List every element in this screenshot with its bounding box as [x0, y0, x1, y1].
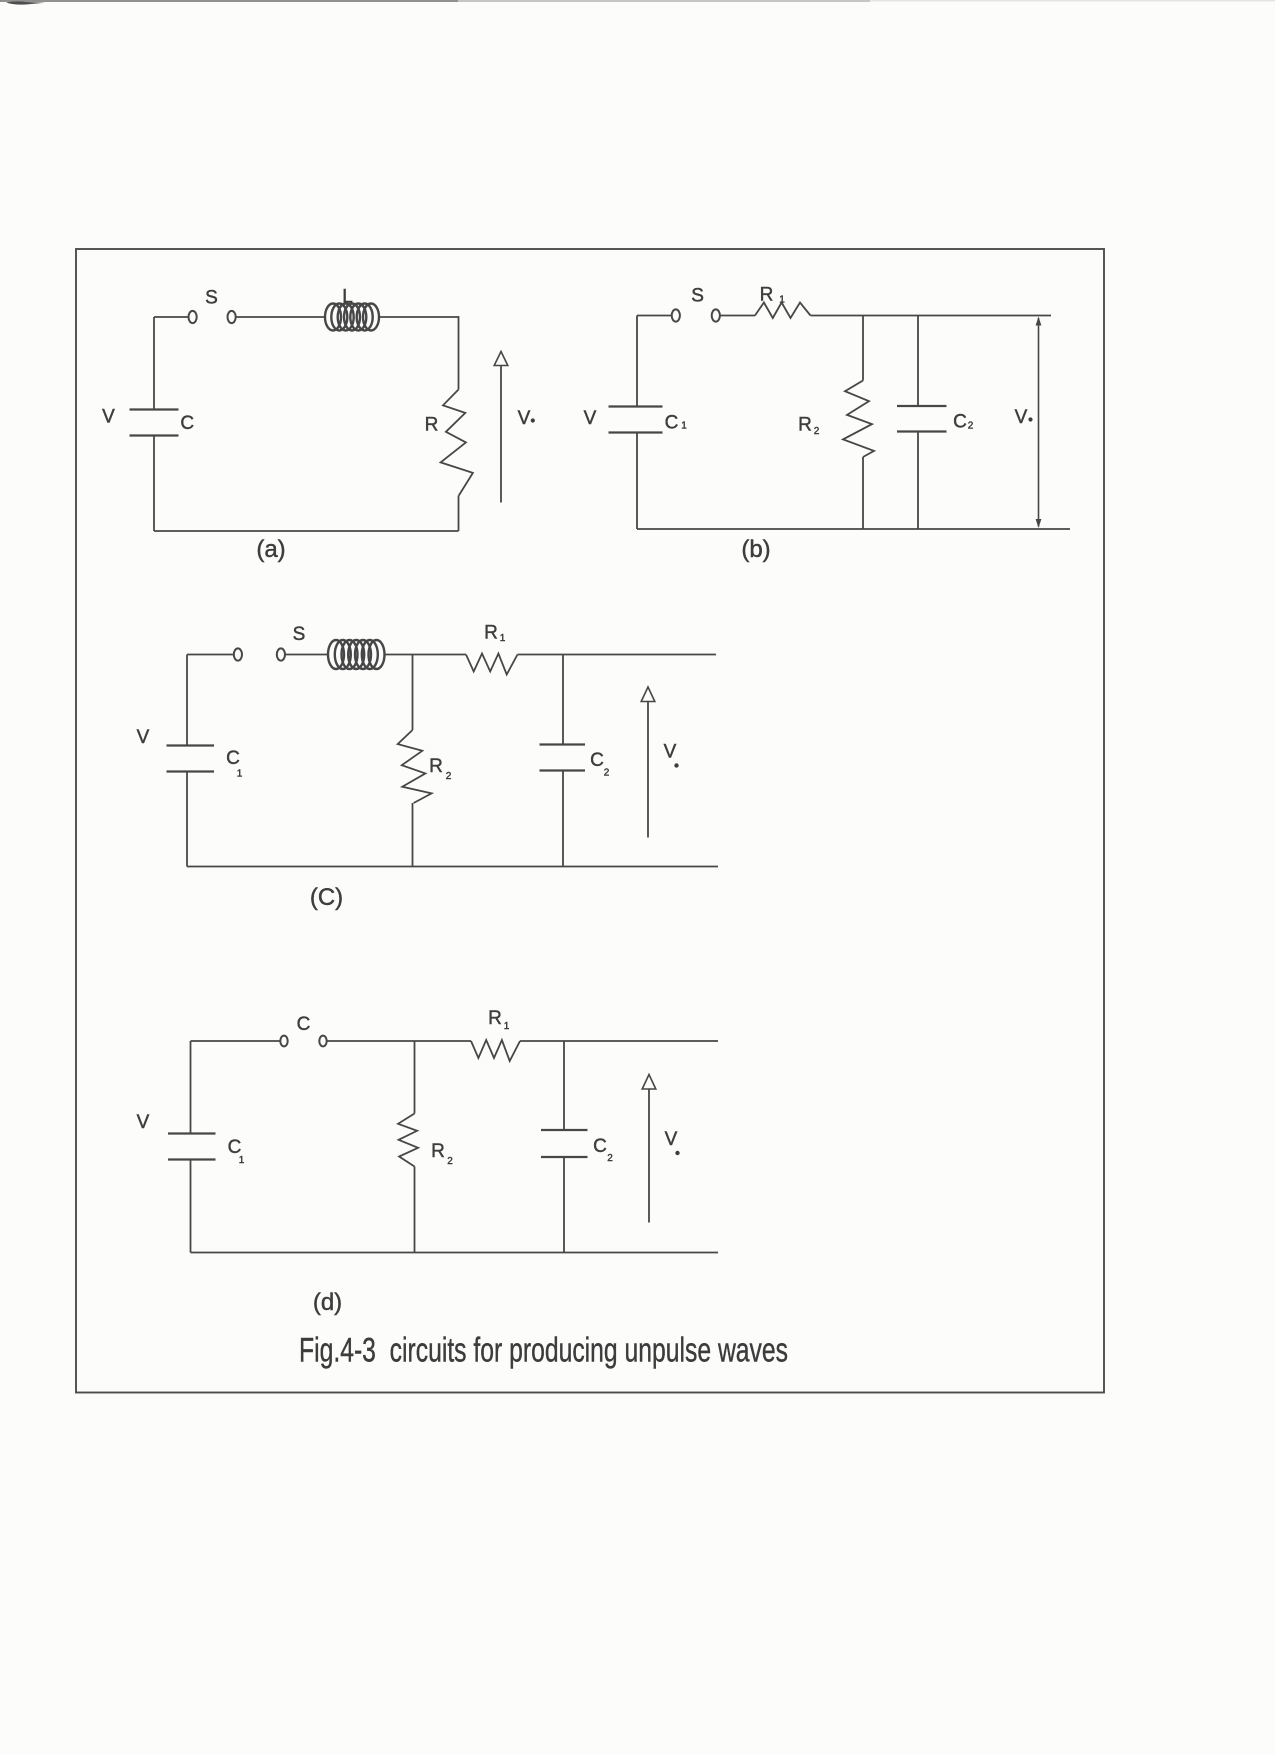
- measurement arrow Vo (b) double-headed: [1038, 318, 1040, 527]
- svg-text:2: 2: [968, 421, 974, 432]
- wire b top right: [811, 315, 1052, 317]
- wire b R2 branch lower: [862, 457, 864, 529]
- svg-text:2: 2: [604, 768, 610, 779]
- wire b top-left stub: [637, 315, 672, 317]
- wire d C2 branch upper: [563, 1041, 565, 1130]
- svg-text:(a): (a): [256, 536, 285, 563]
- wire b C2 branch upper: [917, 316, 919, 407]
- svg-text:V: V: [664, 742, 677, 763]
- svg-text:C: C: [297, 1014, 311, 1035]
- resistor R2 (b): [843, 381, 874, 458]
- resistor R: [441, 390, 473, 496]
- svg-text:1: 1: [239, 1155, 245, 1166]
- svg-text:1: 1: [500, 633, 506, 644]
- svg-text:R: R: [798, 415, 812, 436]
- wire C R2 branch lower: [412, 803, 414, 867]
- wire a left upper: [153, 317, 155, 410]
- svg-text:R: R: [760, 284, 774, 305]
- svg-text:1: 1: [779, 295, 785, 306]
- switch S contact right (C): [277, 648, 285, 660]
- svg-text:Fig.4-3 circuits for producin: Fig.4-3 circuits for producing unpulse w…: [299, 1332, 788, 1370]
- svg-text:R: R: [431, 1141, 445, 1162]
- wire d bottom: [191, 1252, 719, 1254]
- output arrow Vo (d): [648, 1089, 650, 1223]
- svg-text:V: V: [665, 1129, 678, 1150]
- wire C top middle: [385, 654, 467, 656]
- capacitor C1 (b): [609, 405, 663, 407]
- svg-text:(d): (d): [313, 1289, 342, 1316]
- wire d top-left stub: [191, 1040, 280, 1042]
- capacitor C2 (d): [541, 1129, 588, 1131]
- wire d between switch and R1: [327, 1040, 471, 1042]
- switch S contact right (b): [712, 309, 720, 321]
- switch contact left (d): [280, 1036, 287, 1047]
- wire C between switch and inductor: [285, 654, 328, 656]
- wire b bottom: [637, 528, 1070, 530]
- svg-text:C: C: [590, 750, 604, 771]
- svg-text:V: V: [137, 727, 150, 748]
- svg-text:V: V: [137, 1112, 150, 1133]
- output arrow Vo (a): [500, 366, 502, 503]
- switch S contact left (a): [189, 311, 197, 323]
- output arrow Vo (C): [647, 702, 649, 838]
- wire b R2 branch upper: [862, 316, 864, 381]
- wire d C2 branch lower: [563, 1157, 565, 1253]
- wire C left upper: [186, 655, 188, 746]
- wire d left lower: [190, 1160, 192, 1253]
- wire d top right: [520, 1040, 718, 1042]
- svg-text:V: V: [584, 408, 597, 429]
- svg-text:2: 2: [814, 426, 820, 437]
- capacitor C2 (C): [540, 743, 586, 745]
- inductor L: [325, 304, 379, 331]
- wire b between switch and R1: [720, 315, 755, 317]
- svg-text:C: C: [665, 412, 679, 433]
- svg-text:R: R: [429, 756, 443, 777]
- switch S contact left (C): [234, 648, 242, 660]
- wire C bottom: [187, 866, 718, 868]
- wire a bottom: [154, 530, 459, 532]
- svg-text:V: V: [1015, 407, 1028, 428]
- svg-text:1: 1: [681, 421, 687, 432]
- wire a right lower: [458, 496, 460, 532]
- resistor R2 (d): [398, 1114, 418, 1167]
- scan artifact: top edge gray line: [0, 0, 458, 2]
- svg-text:L: L: [342, 287, 353, 308]
- svg-text:C: C: [180, 413, 194, 434]
- scan artifact: dark pen mark top-left: [6, 1, 45, 4]
- svg-text:(b): (b): [741, 536, 770, 563]
- wire C top right: [518, 654, 717, 656]
- capacitor C1 (d): [168, 1132, 216, 1134]
- svg-text:2: 2: [447, 1156, 453, 1167]
- svg-text:R: R: [484, 623, 498, 644]
- capacitor C (a): [130, 408, 179, 410]
- wire b left lower: [636, 433, 638, 530]
- wire a top-left stub: [154, 316, 188, 318]
- svg-text:S: S: [293, 624, 306, 645]
- resistor R1 (b): [755, 303, 811, 319]
- svg-text:V: V: [102, 407, 115, 428]
- wire C C2 branch lower: [562, 771, 564, 867]
- switch S contact left (b): [672, 309, 680, 321]
- svg-text:S: S: [691, 285, 704, 306]
- switch S contact right (a): [228, 311, 236, 323]
- resistor R2 (C): [398, 730, 432, 803]
- resistor R1 (C): [466, 654, 518, 675]
- svg-text:C: C: [953, 411, 967, 432]
- wire a top middle: [236, 316, 325, 318]
- svg-text:C: C: [226, 748, 240, 769]
- capacitor C1 (C): [167, 744, 215, 746]
- svg-text:V: V: [518, 408, 531, 429]
- svg-text:R: R: [488, 1008, 502, 1029]
- resistor R1 (d): [471, 1040, 520, 1061]
- svg-text:1: 1: [504, 1021, 510, 1032]
- svg-text:R: R: [425, 415, 439, 436]
- capacitor C2 (b): [897, 405, 947, 407]
- wire b left upper: [636, 316, 638, 407]
- svg-text:2: 2: [446, 771, 452, 782]
- wire a left lower: [153, 436, 155, 532]
- wire a right upper: [458, 316, 460, 389]
- svg-text:1: 1: [237, 769, 243, 780]
- wire C left lower: [186, 772, 188, 867]
- inductor (C): [328, 640, 385, 669]
- wire d left upper: [190, 1041, 192, 1134]
- wire C R2 branch upper: [412, 655, 414, 731]
- svg-text:S: S: [205, 288, 218, 309]
- wire b C2 branch lower: [917, 432, 919, 530]
- wire d R2 branch upper: [414, 1041, 416, 1114]
- svg-text:C: C: [593, 1136, 607, 1157]
- wire C top-left stub: [187, 654, 234, 656]
- wire C C2 branch upper: [562, 655, 564, 745]
- wire a top right: [379, 316, 459, 318]
- wire d R2 branch lower: [414, 1167, 416, 1253]
- switch contact right (d): [319, 1036, 326, 1047]
- svg-text:2: 2: [607, 1153, 613, 1164]
- svg-text:(C): (C): [310, 884, 343, 911]
